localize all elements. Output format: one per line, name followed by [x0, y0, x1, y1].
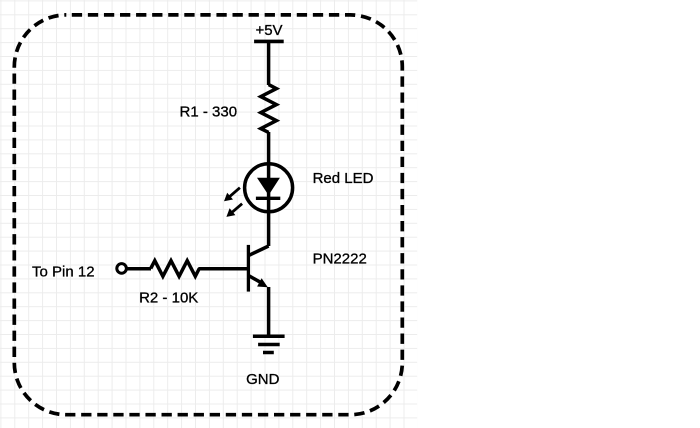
transistor Q1 base bar	[247, 245, 250, 292]
LED light arrow 1	[224, 188, 240, 202]
LED D1 circle	[245, 164, 293, 212]
wire terminal to R2	[128, 267, 152, 271]
svg-text:PN2222: PN2222	[313, 251, 367, 268]
resistor R2	[151, 261, 200, 277]
svg-text:+5V: +5V	[255, 22, 282, 39]
LED anode triangle	[257, 178, 280, 196]
power rail +5V bar	[254, 40, 284, 44]
svg-text:R1 - 330: R1 - 330	[180, 103, 238, 120]
wire R1 to LED	[267, 132, 271, 164]
wire power to R1	[267, 41, 271, 85]
emitter diagonal	[249, 276, 263, 284]
LED light arrow 2	[226, 204, 242, 217]
dashed border frame	[14, 15, 402, 415]
svg-text:To Pin 12: To Pin 12	[32, 264, 95, 281]
emitter arrowhead	[257, 278, 268, 287]
input terminal circle	[117, 264, 127, 274]
wire emitter to ground	[267, 287, 271, 336]
svg-text:GND: GND	[246, 371, 280, 388]
wire through LED	[267, 162, 271, 246]
grid canvas	[0, 0, 417, 428]
wire R2 to base	[198, 267, 248, 271]
ground	[253, 336, 285, 352]
svg-text:R2 - 10K: R2 - 10K	[139, 289, 198, 306]
collector diagonal	[249, 246, 269, 256]
LED cathode bar	[256, 197, 280, 200]
svg-text:Red LED: Red LED	[313, 170, 374, 187]
resistor R1	[261, 85, 277, 133]
